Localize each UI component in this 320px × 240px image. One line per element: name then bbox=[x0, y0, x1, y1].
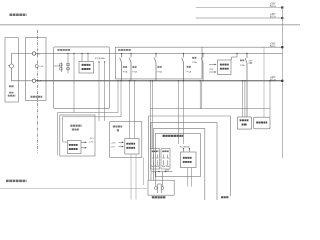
wire horizontal link W109 bbox=[150, 108, 270, 110]
contact S3 bottom bbox=[32, 79, 35, 82]
plug bridge bbox=[158, 184, 162, 193]
svg-text:+15V: +15V bbox=[110, 142, 116, 144]
arrow 28V feed b bbox=[209, 71, 216, 73]
power plug box J1 bbox=[148, 180, 174, 195]
wire stub left bbox=[143, 157, 145, 185]
svg-text:P.5A: P.5A bbox=[123, 71, 128, 74]
wire bus2 drop pair to W109 bbox=[200, 80, 201, 81]
svg-text:28V: 28V bbox=[209, 69, 213, 71]
wire E128 drop a bbox=[98, 61, 99, 62]
svg-text:-15V: -15V bbox=[110, 147, 115, 149]
fuse F2 bbox=[67, 53, 68, 54]
breaker CB1 bbox=[121, 53, 122, 54]
wire feeder drop to box9 bbox=[263, 47, 265, 117]
main busbar box U1 bbox=[54, 47, 110, 109]
wire bus2 drops to E128 bbox=[178, 80, 179, 81]
wire into U6a a bbox=[129, 80, 130, 81]
svg-text:B-1-a: B-1-a bbox=[270, 80, 276, 82]
GCU box N3 bbox=[154, 129, 205, 200]
breaker CB3 bbox=[155, 53, 156, 54]
converter U5a box bbox=[67, 141, 81, 154]
svg-text:B-2-c: B-2-c bbox=[270, 46, 276, 48]
wire bus2 drop pair to box5 wireA bbox=[117, 80, 118, 81]
svg-text:28V: 28V bbox=[249, 60, 253, 62]
contactor K2 box bbox=[152, 150, 159, 152]
wire feeder B-2-a top bbox=[196, 7, 283, 9]
svg-text:E128/65A: E128/65A bbox=[180, 145, 190, 148]
node channel2 label bbox=[10, 13, 27, 16]
breaker CB6 bbox=[246, 53, 247, 54]
contact S2 middle bbox=[35, 65, 38, 68]
wire U7 outputs down bbox=[187, 168, 189, 187]
wire bus2 drops to contactors bbox=[149, 81, 151, 149]
wire into U6a b bbox=[134, 80, 135, 81]
svg-text:P.5A: P.5A bbox=[157, 71, 162, 74]
relay box K1 bbox=[25, 38, 46, 101]
wire bus2 drop to box8 b bbox=[244, 80, 245, 81]
battery busbar box U3 bbox=[115, 47, 282, 79]
display power box U9 bbox=[254, 117, 270, 129]
display box U8 bbox=[237, 117, 251, 129]
svg-text:-12V: -12V bbox=[89, 142, 94, 144]
fuse F1 bbox=[54, 65, 61, 67]
svg-text:E128/65A: E128/65A bbox=[95, 57, 105, 60]
wire U4 output to bus bbox=[232, 54, 238, 61]
converter U4 box bbox=[218, 60, 232, 75]
node plug label bbox=[152, 196, 166, 198]
wire drop to T junction bbox=[73, 53, 74, 54]
breaker CB4 bbox=[183, 53, 184, 54]
wire transfer link bbox=[154, 169, 156, 172]
generator G1 box bbox=[5, 38, 18, 103]
wire DC bus bbox=[36, 80, 283, 82]
GCU inner box N4 bbox=[155, 134, 200, 177]
svg-text:B-2-a: B-2-a bbox=[270, 6, 276, 8]
wire dotted into converter U7 bbox=[183, 148, 184, 149]
primary distribution box U2 bbox=[81, 53, 82, 54]
svg-text:P.5A: P.5A bbox=[192, 61, 197, 64]
wire bus2 drop to box5 wireB bbox=[120, 80, 121, 81]
wire generator to contact top bbox=[12, 54, 33, 65]
breaker CB2 bbox=[130, 53, 131, 54]
node switch label bbox=[31, 96, 43, 98]
converter U6a box bbox=[125, 139, 139, 155]
wire bus2 drop to box9 bbox=[269, 80, 270, 81]
generator G1 symbol bbox=[10, 64, 14, 68]
arrow 28V feed a bbox=[209, 64, 216, 66]
wire feeder B-2-b bbox=[196, 17, 283, 19]
wire right vertical feeder bus bbox=[281, 8, 283, 159]
GCU box N2 bbox=[151, 123, 217, 200]
wire main bus AC bbox=[36, 53, 283, 55]
contact S1 top bbox=[32, 52, 35, 55]
controller box U5 bbox=[60, 115, 95, 156]
converter U7 box bbox=[181, 152, 197, 168]
plug pin a bbox=[155, 172, 157, 187]
svg-text:L-28: L-28 bbox=[39, 66, 44, 68]
power manager box U6 bbox=[110, 122, 142, 158]
wire U6a outputs down bbox=[130, 154, 132, 200]
wire bus2 drop to box8 a bbox=[242, 80, 243, 81]
svg-text:+12V: +12V bbox=[89, 138, 95, 140]
svg-text:B-2-b: B-2-b bbox=[270, 17, 276, 19]
breaker CB5 bbox=[202, 53, 203, 54]
wire channel separator dashed top bbox=[0, 24, 300, 26]
node GCU title bbox=[163, 135, 184, 137]
svg-text:P.5A: P.5A bbox=[240, 64, 245, 67]
node generator labels bbox=[9, 85, 14, 87]
node channel1 label bbox=[6, 180, 27, 183]
GCU outer box N1 bbox=[149, 116, 231, 196]
wire generator to contact bottom bbox=[12, 68, 33, 81]
wire channel separator dashed bottom bbox=[0, 188, 147, 190]
node recorder label bbox=[221, 196, 229, 198]
wire channel dash-dot line bbox=[36, 30, 38, 153]
contactor K3 box bbox=[162, 150, 169, 152]
plug pin b bbox=[162, 172, 164, 187]
svg-text:P.5A: P.5A bbox=[132, 71, 137, 74]
svg-text:P.5A: P.5A bbox=[187, 70, 192, 73]
wire E128 drop b bbox=[104, 61, 105, 62]
